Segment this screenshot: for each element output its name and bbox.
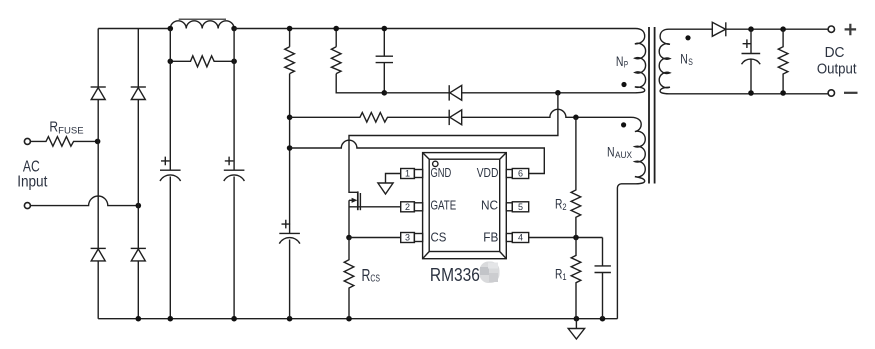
- pin 1 box: [401, 169, 415, 179]
- junction load top: [780, 26, 786, 32]
- top rail left: [98, 28, 170, 30]
- junction bottom RCS: [346, 316, 352, 322]
- clamp capacitor: [376, 29, 393, 93]
- bulk capacitor C1: [160, 29, 181, 319]
- svg-text:R: R: [555, 195, 562, 211]
- mosfet Q1 gate bar: [359, 193, 361, 210]
- mosfet Q1 body arrow: [349, 199, 353, 201]
- junction bottom Cfb: [600, 316, 606, 322]
- svg-text:2: 2: [405, 202, 410, 212]
- svg-text:DC: DC: [825, 44, 845, 61]
- junction CS node: [346, 235, 352, 241]
- junction bottom col2: [136, 316, 142, 322]
- aux diode D6: [448, 110, 450, 125]
- svg-text:N: N: [680, 50, 688, 66]
- wire clamp diode to switch node: [462, 92, 637, 94]
- svg-text:VDD: VDD: [477, 166, 499, 180]
- resistor R2: [571, 117, 581, 237]
- pin 5 box: [506, 203, 512, 211]
- bridge diode D1: [91, 86, 106, 88]
- svg-text:GND: GND: [431, 166, 452, 180]
- transformer primary NP: [635, 29, 646, 93]
- pin 6 box: [506, 170, 512, 178]
- junction output cap bottom: [748, 90, 754, 96]
- junction aux line left: [287, 115, 293, 121]
- bottom rail: [98, 318, 617, 320]
- transformer aux NAUX: [617, 117, 645, 318]
- svg-text:Output: Output: [817, 60, 857, 77]
- feedback capacitor: [595, 238, 611, 319]
- junction fuse-bridge: [95, 139, 101, 145]
- junction inductor right: [231, 26, 237, 32]
- wire AC bottom with hop over column 1: [31, 196, 139, 206]
- output load resistor: [778, 29, 788, 93]
- output minus terminal: [828, 90, 834, 96]
- bridge column 1 wire: [97, 29, 99, 319]
- filter damping resistor: [170, 56, 234, 67]
- clamp line to diode: [384, 92, 449, 94]
- wire clamp resistor down: [336, 74, 384, 93]
- wire startup resistor to VDD cap: [289, 74, 291, 234]
- wire CS to pin3: [349, 237, 401, 239]
- resistor R1: [571, 238, 581, 319]
- junction FB node: [573, 235, 579, 241]
- junction rail startup: [287, 26, 293, 32]
- junction clamp bottom: [382, 90, 388, 96]
- output diode D7: [712, 22, 725, 36]
- svg-text:R: R: [362, 265, 371, 285]
- resistor RCS: [344, 238, 354, 319]
- junction inductor left: [168, 26, 174, 32]
- IC pin1 indicator circle: [433, 161, 438, 166]
- junction bottom C1: [168, 316, 174, 322]
- bridge column 2 wire: [137, 29, 139, 319]
- plus sign: [845, 24, 857, 36]
- junction rail clampR: [333, 26, 339, 32]
- svg-text:3: 3: [405, 233, 410, 243]
- top rail middle: [234, 28, 635, 30]
- AC input terminal top: [24, 138, 30, 144]
- NP phase dot: [621, 82, 626, 87]
- bulk capacitor C2: [224, 29, 245, 319]
- NS phase dot: [685, 35, 690, 40]
- mosfet Q1 channel bar: [357, 191, 359, 210]
- bulk capacitor C1 plus marker: [161, 157, 170, 166]
- svg-text:Input: Input: [17, 173, 48, 190]
- VDD line with hop over drain: [290, 140, 545, 173]
- bridge diode D2: [131, 86, 146, 88]
- bridge diode D3: [91, 247, 106, 249]
- startup resistor: [285, 47, 295, 74]
- svg-text:5: 5: [518, 202, 523, 212]
- VDD capacitor: [279, 233, 300, 318]
- startup resistor column: [289, 29, 291, 47]
- mosfet Q1 source vertical: [348, 200, 350, 237]
- IC U1 outer body: [423, 153, 507, 259]
- svg-text:AUX: AUX: [615, 150, 632, 160]
- wire FB pin4 to divider: [529, 237, 603, 239]
- resistor RFUSE: [31, 137, 98, 147]
- IC U1 bevel corners: [423, 153, 507, 259]
- junction bottom R1: [574, 316, 580, 322]
- svg-text:P: P: [624, 60, 628, 70]
- pin 2 box: [401, 202, 415, 212]
- svg-text:S: S: [688, 57, 693, 67]
- junction rail clampC: [382, 26, 388, 32]
- svg-text:R: R: [49, 118, 58, 135]
- svg-text:R: R: [555, 265, 562, 281]
- junction bottom Cvdd: [287, 316, 293, 322]
- filter inductor: [170, 21, 234, 29]
- svg-text:FUSE: FUSE: [58, 125, 83, 136]
- VDD capacitor plus marker: [282, 220, 291, 229]
- clamp resistor column: [335, 29, 337, 47]
- transformer core: [649, 27, 655, 184]
- svg-text:N: N: [616, 53, 624, 69]
- svg-text:6: 6: [518, 169, 523, 179]
- clamp resistor: [331, 47, 341, 74]
- clamp diode D5: [448, 85, 450, 100]
- junction aux R2: [573, 115, 579, 121]
- output plus terminal: [828, 26, 834, 32]
- aux line hop over switch node: [462, 109, 631, 117]
- junction output cap top: [748, 26, 754, 32]
- junction damping left: [168, 59, 174, 65]
- NAUX phase dot: [621, 122, 626, 127]
- pin 4 box: [506, 234, 512, 242]
- junction switch node: [555, 90, 561, 96]
- mosfet Q1 source/gate wire: [349, 206, 401, 208]
- junction load bottom: [780, 90, 786, 96]
- inductor core bar: [179, 18, 226, 20]
- bulk capacitor C2 plus marker: [225, 157, 234, 166]
- drain wire from switch node: [349, 93, 558, 193]
- svg-text:CS: CS: [431, 231, 447, 245]
- transformer secondary NS: [659, 29, 828, 94]
- minus sign: [844, 92, 858, 94]
- blur patch: [480, 262, 500, 284]
- ground bottom: [575, 319, 577, 329]
- ground at pin1: [386, 174, 401, 184]
- output capacitor: [742, 29, 761, 93]
- svg-text:FB: FB: [483, 231, 498, 245]
- AC input terminal bottom: [24, 203, 30, 209]
- output capacitor plus marker: [743, 39, 752, 48]
- svg-text:4: 4: [518, 233, 523, 243]
- svg-text:N: N: [607, 144, 615, 160]
- svg-text:GATE: GATE: [431, 198, 457, 212]
- IC U1 inner body: [429, 159, 500, 251]
- svg-text:2: 2: [562, 202, 566, 213]
- svg-text:1: 1: [405, 169, 410, 179]
- svg-text:RM336: RM336: [430, 264, 480, 285]
- svg-text:CS: CS: [370, 273, 380, 285]
- wire diode to plus terminal: [726, 28, 828, 30]
- svg-text:1: 1: [562, 272, 566, 283]
- junction AC bottom: [136, 203, 142, 209]
- bridge diode D4: [131, 247, 146, 249]
- junction damping right: [231, 59, 237, 65]
- pin 3 box: [401, 233, 415, 243]
- aux feed line with resistor: [290, 113, 450, 123]
- junction bottom C2: [231, 316, 237, 322]
- junction vdd line left: [287, 145, 293, 151]
- svg-text:NC: NC: [481, 198, 498, 212]
